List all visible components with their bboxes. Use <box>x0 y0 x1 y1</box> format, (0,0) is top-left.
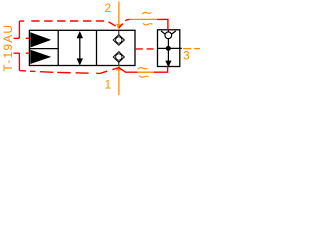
check valve passage + junction <box>158 39 182 66</box>
solenoid cell divider <box>29 48 58 50</box>
top edge right of port 2 <box>119 19 130 28</box>
left stub lower <box>14 52 30 54</box>
port 2 line <box>117 2 121 29</box>
pilot line orange segment (top) <box>129 18 157 20</box>
port 3 line (dashes to edge) <box>183 48 200 50</box>
wave mark bottom a <box>138 68 148 70</box>
top edge left of port 2 <box>19 20 24 22</box>
svg-text:T-19AU: T-19AU <box>1 24 15 72</box>
position divider 2 <box>96 30 98 65</box>
wave mark bottom b <box>139 76 148 78</box>
wave mark top b <box>143 23 152 25</box>
mid pilot dashes to check box <box>136 48 156 50</box>
check ball symbol lower (port 1 seat) <box>113 52 124 66</box>
solenoid triangle top <box>30 32 51 47</box>
check ball symbol upper (port 2 seat) <box>113 30 124 45</box>
bottom edge right of port 1 <box>119 68 137 73</box>
port 1 line <box>117 66 121 95</box>
double-headed arrow (spool actuator) <box>78 33 82 64</box>
valve body outline <box>29 30 135 65</box>
pilot line red elbow to check box top <box>157 19 168 30</box>
position divider 1 <box>57 30 59 65</box>
solenoid triangle bottom <box>30 50 51 64</box>
enclosure boundary (red dashed) <box>14 19 168 73</box>
left stub upper <box>14 37 30 39</box>
left edge lower <box>18 53 20 71</box>
wave mark top a <box>142 12 151 14</box>
pilot line orange segment (bottom) <box>137 71 154 73</box>
svg-text:1: 1 <box>105 78 112 92</box>
svg-text:2: 2 <box>105 1 112 15</box>
check valve box (right) <box>158 30 180 67</box>
svg-text:3: 3 <box>183 49 190 63</box>
riser to check box bottom <box>154 66 168 72</box>
left edge upper <box>18 21 20 38</box>
check valve seat + ball <box>161 30 176 39</box>
bottom edge left of port 1 <box>19 68 119 74</box>
